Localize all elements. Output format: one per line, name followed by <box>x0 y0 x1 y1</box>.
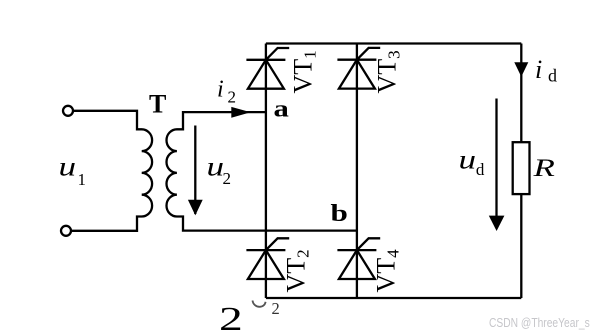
svg-text:d: d <box>548 65 557 85</box>
wire right bridge branch <box>356 44 358 299</box>
wire top rail <box>266 42 521 44</box>
arrowhead u2 <box>188 200 203 216</box>
svg-text:CSDN @ThreeYear_s: CSDN @ThreeYear_s <box>489 316 590 330</box>
thyristor VT3 <box>337 48 380 89</box>
svg-text:T: T <box>149 90 166 119</box>
wire + transformer primary winding <box>71 111 152 231</box>
wire bottom rail <box>266 297 521 299</box>
svg-text:R: R <box>532 154 555 182</box>
svg-text:b: b <box>331 200 348 227</box>
svg-text:u: u <box>459 144 477 174</box>
svg-text:i: i <box>535 55 542 84</box>
thyristor VT4 <box>337 238 380 279</box>
svg-text:2: 2 <box>223 169 232 188</box>
wire node a + transformer secondary winding <box>166 112 356 231</box>
svg-text:2: 2 <box>228 87 237 106</box>
partial glyph arc <box>253 301 266 307</box>
arrow u2 <box>194 126 196 215</box>
arrowhead ud <box>489 216 505 231</box>
wire load branch <box>520 44 522 299</box>
svg-text:d: d <box>476 160 485 179</box>
arrowhead i2 <box>231 107 250 118</box>
thyristor VT2 <box>246 238 289 279</box>
arrow ud <box>495 99 497 218</box>
svg-text:u: u <box>59 151 77 181</box>
svg-text:2: 2 <box>219 300 243 335</box>
svg-text:i: i <box>217 76 224 102</box>
resistor R1 body <box>513 142 530 194</box>
arrowhead id <box>514 62 528 77</box>
svg-text:a: a <box>274 95 290 122</box>
thyristor VT1 <box>246 48 289 89</box>
terminal top-left <box>63 106 73 116</box>
terminal bottom-left <box>61 226 71 236</box>
svg-text:2: 2 <box>272 299 280 318</box>
svg-text:1: 1 <box>78 170 87 189</box>
svg-text:u: u <box>207 152 225 182</box>
wire left bridge branch <box>265 44 267 299</box>
